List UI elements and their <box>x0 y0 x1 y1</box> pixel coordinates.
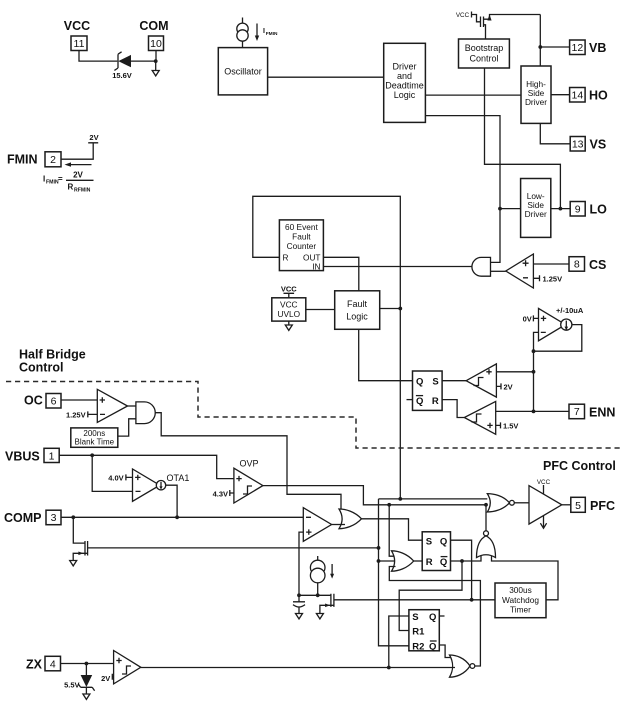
svg-text:11: 11 <box>74 38 85 50</box>
wire feedback loop of enable comparator <box>534 325 582 352</box>
svg-text:7: 7 <box>574 406 580 418</box>
capacitor C1 <box>293 595 305 613</box>
svg-text:Bootstrap: Bootstrap <box>465 43 504 53</box>
block High-Side Driver <box>521 66 551 123</box>
svg-text:15.6V: 15.6V <box>112 71 132 80</box>
pin 14 HO <box>570 88 586 103</box>
wire to VS pin <box>540 123 570 143</box>
node Qbar junction <box>460 559 464 563</box>
svg-text:12: 12 <box>572 42 584 54</box>
wire latch Q down to watchdog line <box>451 540 472 600</box>
comparator U10 OVP 4.3V <box>234 468 263 503</box>
svg-text:Counter: Counter <box>287 241 317 251</box>
svg-text:I: I <box>263 28 265 35</box>
wire latch2 Qbar to nor <box>439 645 452 658</box>
wire into low-side driver <box>500 208 521 210</box>
wire oscillator to driver logic <box>268 76 384 78</box>
svg-text:FMIN: FMIN <box>46 180 59 186</box>
svg-text:Q: Q <box>440 557 447 568</box>
svg-text:R: R <box>432 396 439 407</box>
transistor M2 ramp reset <box>320 594 495 614</box>
svg-text:2V: 2V <box>101 674 110 683</box>
node source junction <box>316 593 320 597</box>
wire ENN line to pin <box>534 410 570 412</box>
wire latch Qbar stub <box>407 399 413 401</box>
node schmitt1 tap <box>532 370 536 374</box>
op-amp OTA1 <box>133 469 160 501</box>
wire latch Qbar to nor-up input <box>451 556 482 561</box>
svg-text:5: 5 <box>575 500 581 512</box>
svg-text:VCC: VCC <box>280 300 298 310</box>
svg-text:VCC: VCC <box>281 285 297 294</box>
svg-text:VBUS: VBUS <box>5 450 40 464</box>
current source ramp <box>317 556 319 560</box>
wire counter OUT to fault logic <box>323 257 358 291</box>
node VB junction <box>538 45 542 49</box>
wire driver to high-side driver <box>425 94 521 96</box>
wire dashed section boundary <box>6 382 622 449</box>
node COM junction <box>154 59 158 63</box>
svg-text:VCC: VCC <box>64 19 90 33</box>
node OTA output junction <box>175 515 179 519</box>
block Driver and Deadtime Logic <box>384 43 426 122</box>
svg-text:HO: HO <box>589 89 608 103</box>
nor gate U19 zx <box>450 655 471 677</box>
svg-text:COMP: COMP <box>4 511 42 525</box>
svg-text:R: R <box>426 557 433 568</box>
block 300us Watchdog Timer <box>495 583 546 618</box>
pin 13 VS <box>570 137 585 152</box>
wire comparator to and gate <box>128 405 136 407</box>
wire CS pin to comparator <box>533 263 569 265</box>
block Bootstrap Control <box>459 39 510 68</box>
svg-text:UVLO: UVLO <box>278 309 301 319</box>
buffer U17 PFC driver <box>529 486 562 524</box>
wire PFC nor line1 <box>379 498 488 500</box>
svg-text:200ns: 200ns <box>83 429 105 438</box>
wire schmitt1 input from rail <box>496 371 533 373</box>
wire Qbar down to latch2 R1 <box>399 561 462 631</box>
wire driver output 2 down to low-side <box>425 116 500 263</box>
pin 4 ZX <box>45 656 61 671</box>
wire VCC pin to zener <box>79 51 117 62</box>
wire IFMIN arrow annotation <box>256 24 258 37</box>
latch U14 PFC SR <box>422 532 450 571</box>
and gate U9 OC blank <box>136 402 155 424</box>
ground D2 <box>83 694 90 699</box>
wire comparator plus down to ramp node <box>299 532 303 595</box>
current source I-FMIN into oscillator <box>242 18 244 24</box>
ground COM <box>152 61 159 76</box>
ground UVLO <box>285 321 292 330</box>
wire or out to latch R <box>414 560 423 562</box>
wire current direction arrow <box>70 164 92 166</box>
wire FMIN to 2V source <box>61 143 98 159</box>
svg-text:LO: LO <box>590 203 608 217</box>
node OR mid tap junction <box>377 559 381 563</box>
svg-text:Deadtime: Deadtime <box>385 81 424 91</box>
svg-text:4.0V: 4.0V <box>108 474 123 483</box>
node VBUS junction <box>90 453 94 457</box>
wire low-side out to LO pin <box>551 208 570 210</box>
zener D1 15.6V <box>118 55 131 67</box>
svg-text:Driver: Driver <box>393 62 417 72</box>
svg-text:R: R <box>283 253 289 263</box>
or gate U13 reset <box>392 551 414 571</box>
svg-text:Q: Q <box>416 396 423 407</box>
wire and gate output to OR near comp <box>155 413 344 513</box>
svg-text:Driver: Driver <box>525 209 547 219</box>
ground C1 <box>296 614 303 619</box>
wire counter R reset loop from fault logic <box>253 196 400 499</box>
pin 5 PFC <box>571 497 586 512</box>
wire mid tap to OR gate <box>379 560 398 562</box>
svg-text:R: R <box>68 183 74 192</box>
wire OTA1 output to COMP line <box>166 485 177 517</box>
svg-text:2: 2 <box>50 154 56 166</box>
wire COM pin down <box>155 51 157 62</box>
svg-text:13: 13 <box>572 139 584 151</box>
wire R input from schmitt2 <box>442 400 464 418</box>
pin 8 CS <box>569 257 585 272</box>
node fault output junction <box>398 307 402 311</box>
wire S input from schmitt1 <box>442 380 466 382</box>
svg-text:1.5V: 1.5V <box>503 422 518 431</box>
svg-text:ZX: ZX <box>26 657 43 671</box>
nor gate U15 up <box>477 536 496 558</box>
svg-text:COM: COM <box>139 19 168 33</box>
svg-text:Timer: Timer <box>510 605 531 615</box>
svg-text:Fault: Fault <box>292 232 311 242</box>
wire latch Q up to fault logic <box>359 329 413 380</box>
svg-text:Oscillator: Oscillator <box>224 67 262 77</box>
wire latch2 Q stub <box>439 615 444 617</box>
wire VB branch <box>539 15 541 67</box>
svg-text:FMIN: FMIN <box>266 31 278 37</box>
pin 12 VB <box>570 40 586 55</box>
comparator U20 ZX 2V <box>114 651 141 684</box>
wire to VB pin <box>540 46 569 48</box>
wire counter IN from and gate <box>323 266 472 268</box>
svg-text:Driver: Driver <box>525 97 547 107</box>
node ENN tap <box>532 410 536 414</box>
svg-text:2V: 2V <box>504 383 513 392</box>
node feedback junction <box>532 349 536 353</box>
svg-text:CS: CS <box>589 258 606 272</box>
node LO junction <box>559 207 563 211</box>
svg-text:Q: Q <box>440 536 447 547</box>
wire OVP branch down to OR gate <box>389 505 395 556</box>
pin 2 FMIN <box>45 152 61 167</box>
block Oscillator <box>218 48 267 95</box>
svg-text:300us: 300us <box>509 585 532 595</box>
svg-text:0V: 0V <box>523 314 532 323</box>
wire or out to latch S <box>362 519 423 540</box>
svg-text:OTA1: OTA1 <box>167 473 190 483</box>
comparator U7 schmitt 1.5V <box>464 401 495 434</box>
svg-text:4: 4 <box>50 658 56 670</box>
svg-text:Logic: Logic <box>394 90 416 100</box>
svg-text:Q: Q <box>416 377 423 388</box>
pin 1 VBUS <box>44 448 59 462</box>
svg-text:1.25V: 1.25V <box>66 411 86 420</box>
pin 11 VCC <box>71 36 87 51</box>
block Fault Logic <box>335 291 380 330</box>
node ZX junction <box>85 662 89 666</box>
svg-text:14: 14 <box>572 90 584 102</box>
transistor M1 comp clamp <box>73 517 378 560</box>
current source +/-10uA <box>561 319 572 330</box>
svg-text:IN: IN <box>312 262 320 272</box>
wire VBUS line to OVP <box>59 455 234 478</box>
svg-text:2V: 2V <box>73 171 83 180</box>
svg-text:Logic: Logic <box>346 312 368 322</box>
node fault line1 junction <box>398 497 402 501</box>
block VCC UVLO <box>272 298 306 321</box>
node 1.5V threshold <box>496 422 501 428</box>
node 2V threshold <box>496 383 501 389</box>
svg-text:Half Bridge: Half Bridge <box>19 348 86 362</box>
svg-text:+/-10uA: +/-10uA <box>556 306 584 315</box>
wire OVP output to PFC nor line2 <box>263 486 487 505</box>
svg-text:9: 9 <box>575 204 581 216</box>
wire comparator to or gate <box>332 524 345 526</box>
wire latch2 S from ZX line <box>389 616 409 668</box>
wire nor-up output to line2 <box>485 505 487 531</box>
svg-text:S: S <box>412 612 418 623</box>
comparator U8 OC 1.25V <box>97 389 127 422</box>
ground pfc driver <box>540 516 546 529</box>
wire to HO pin <box>551 94 570 96</box>
node M1 drain junction <box>377 546 381 550</box>
node 1.25V threshold <box>533 275 539 281</box>
svg-text:Fault: Fault <box>347 299 368 309</box>
wire blank time to and gate <box>118 419 136 436</box>
comparator U6 schmitt 2V <box>466 364 496 397</box>
svg-text:8: 8 <box>574 259 580 271</box>
svg-text:Blank Time: Blank Time <box>75 438 115 447</box>
wire ramp node <box>299 594 331 596</box>
node COMP junction <box>71 515 75 519</box>
svg-text:Watchdog: Watchdog <box>502 595 539 605</box>
svg-text:Control: Control <box>19 361 63 375</box>
node OVP branch junction <box>387 503 391 507</box>
svg-text:VB: VB <box>589 41 606 55</box>
wire nor output feedback to reset OR <box>389 567 480 667</box>
wire nor-up right input from watchdog <box>492 556 559 600</box>
or gate U12 comp <box>339 509 362 529</box>
transistor Q1 bootstrap fet <box>472 15 541 40</box>
zener D2 5.5V <box>85 664 87 676</box>
svg-text:I: I <box>43 175 45 184</box>
pin 3 COMP <box>46 510 61 525</box>
svg-text:RFMIN: RFMIN <box>74 188 91 194</box>
svg-text:5.5V: 5.5V <box>64 681 79 690</box>
svg-text:PFC Control: PFC Control <box>543 459 616 473</box>
block 200ns Blank Time <box>71 428 118 447</box>
wire VBUS to OTA minus <box>92 455 132 491</box>
wire driver to PFC pin <box>562 504 571 506</box>
wire COMP line <box>61 516 303 518</box>
wire ramp arrow annotation <box>331 564 333 574</box>
svg-text:OVP: OVP <box>239 459 258 469</box>
svg-text:60 Event: 60 Event <box>285 222 318 232</box>
wire fault logic output <box>380 308 401 310</box>
pin 6 OC <box>46 394 61 409</box>
svg-text:Q: Q <box>429 641 436 652</box>
svg-text:6: 6 <box>51 396 57 408</box>
svg-text:OC: OC <box>24 394 43 408</box>
svg-text:3: 3 <box>51 512 57 524</box>
wire bootstrap down to LO node <box>485 68 561 209</box>
and gate U2 mirrored CS <box>472 257 491 276</box>
svg-text:Q: Q <box>429 612 436 623</box>
nor gate U16 pfc <box>487 494 509 512</box>
wire schmitt2 input from ENN line <box>496 410 534 412</box>
node nor-up output junction <box>484 503 488 507</box>
wire UVLO to fault logic <box>306 309 335 311</box>
svg-text:ENN: ENN <box>589 406 615 420</box>
svg-text:=: = <box>58 175 63 184</box>
svg-text:2V: 2V <box>89 133 98 142</box>
svg-text:FMIN: FMIN <box>7 153 38 167</box>
wire R2 rail vertical <box>379 499 409 646</box>
svg-text:VCC: VCC <box>537 479 551 486</box>
wire ZX output line <box>141 667 455 669</box>
wire comparator out to and gate <box>491 270 506 272</box>
ground M1 <box>70 561 77 566</box>
svg-text:PFC: PFC <box>590 499 615 513</box>
wire OC pin to comparator <box>61 399 97 401</box>
svg-text:R1: R1 <box>412 627 425 638</box>
pin 7 ENN <box>569 404 585 419</box>
comparator U3 CS 1.25V <box>506 254 534 288</box>
svg-text:VS: VS <box>590 138 607 152</box>
svg-text:S: S <box>426 536 432 547</box>
node cap junction <box>297 593 301 597</box>
node LO input junction <box>498 207 502 211</box>
svg-text:VCC: VCC <box>456 12 470 19</box>
comparator U11 comp <box>303 508 331 542</box>
wire ZX pin to comparator <box>61 663 114 665</box>
block 60 Event Fault Counter <box>279 220 323 271</box>
latch U5 enable SR <box>413 371 443 410</box>
pin 9 LO <box>570 202 585 217</box>
svg-text:1: 1 <box>49 450 55 462</box>
pin 10 COM <box>149 36 164 51</box>
block Low-Side Driver <box>521 179 551 238</box>
wire nor to pfc driver <box>514 502 529 504</box>
latch U18 zx SR <box>409 610 439 651</box>
svg-text:Control: Control <box>469 54 498 64</box>
wire minus input down the sense rail <box>534 332 539 411</box>
node latch2 S tap <box>387 666 391 670</box>
svg-text:1.25V: 1.25V <box>543 275 563 284</box>
svg-text:S: S <box>432 377 438 388</box>
svg-text:4.3V: 4.3V <box>213 490 228 499</box>
ground M2 <box>316 614 323 619</box>
svg-text:and: and <box>397 71 412 81</box>
svg-text:10: 10 <box>150 38 162 50</box>
node watchdog line junction <box>470 598 474 602</box>
svg-text:R2: R2 <box>412 641 424 652</box>
